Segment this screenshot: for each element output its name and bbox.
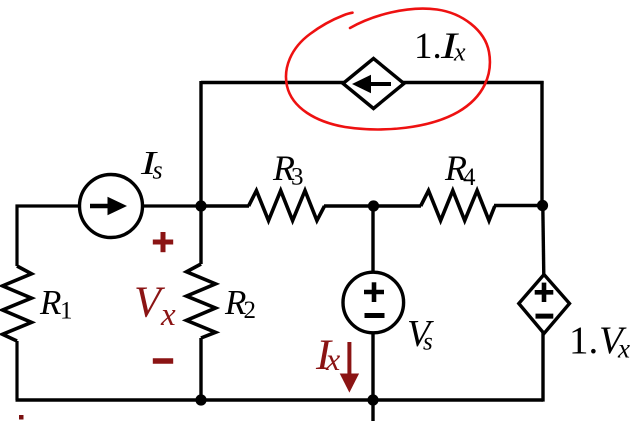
- svg-text:s: s: [423, 329, 433, 356]
- svg-text:1.: 1.: [569, 319, 598, 362]
- svg-text:1.: 1.: [414, 26, 442, 67]
- wire: Vs bottom lead (373,333)-(373,400): [371, 332, 374, 400]
- annotation: Vx minus sign: [153, 358, 173, 363]
- svg-text:s: s: [153, 156, 163, 185]
- wire: bottom rail (15,400)-(543,400): [16, 398, 544, 401]
- node D (201,400): [195, 394, 206, 405]
- annotation: Ix current arrow: [347, 342, 351, 375]
- svg-text:x: x: [160, 297, 176, 333]
- wire: right rail lower (543,333)-(543,400): [541, 332, 544, 402]
- wire: middle horizontal left lead of R3 (201,206)-(248,206): [201, 204, 249, 207]
- wire: (143,206)-(201,206): [142, 204, 202, 207]
- wire: right rail to diamond top (542,205)-(543,275): [543, 205, 544, 276]
- wire: Vs top lead (373,206)-(373,273): [371, 206, 374, 274]
- svg-text:1: 1: [60, 298, 73, 325]
- svg-text:3: 3: [291, 164, 304, 191]
- wire: top-left horizontal, left of Is (15,206)-(79,206): [16, 204, 81, 207]
- dependent voltage source 1.Vx (diamond): [519, 275, 570, 334]
- stray maroon dot bottom-left: [19, 415, 24, 420]
- wire: R4 right lead (495,206)-(542,205): [494, 204, 543, 207]
- wire: top horizontal left of diamond (201,82)-(343,83): [201, 81, 344, 84]
- wire: R4 left lead (373,206)-(420,206): [373, 204, 421, 207]
- wire: right rail upper (542,83)-(542,205): [540, 81, 543, 206]
- svg-text:x: x: [617, 334, 630, 364]
- resistor R1: [3, 266, 32, 341]
- node B (373,206): [368, 200, 379, 211]
- current source Is: [80, 175, 143, 238]
- annotation: hand-drawn red ellipse around 1.Ix source: [286, 9, 490, 130]
- resistor R3: [249, 191, 325, 221]
- wire: top horizontal right of diamond (404,83)-(542,83): [403, 81, 544, 84]
- wire: bottom stub below node (373,400)-(373,421): [371, 400, 374, 421]
- wire: left rail bottom segment (17,341)-(17,400): [15, 341, 18, 400]
- node E (373,400): [367, 394, 378, 405]
- resistor R4: [421, 191, 495, 221]
- wire: R3 right lead (324,206)-(373,206): [324, 204, 374, 207]
- voltage source Vs: [343, 272, 404, 333]
- svg-text:4: 4: [463, 164, 476, 191]
- node C (542,205): [537, 200, 548, 211]
- wire: R2 top lead (201,206)-(201,264): [199, 206, 202, 264]
- dependent current source 1.Ix (diamond): [343, 59, 404, 109]
- svg-text:R: R: [39, 283, 61, 322]
- svg-text:x: x: [325, 341, 340, 377]
- wire: middle-left vertical rail (201,82)-(201,206): [199, 81, 202, 207]
- resistor R2: [187, 264, 216, 338]
- wire: left rail top segment (17,206)-(17,266): [15, 205, 18, 267]
- svg-text:x: x: [453, 38, 466, 67]
- svg-text:2: 2: [244, 297, 257, 324]
- annotation: Vx plus sign: [153, 240, 173, 245]
- node A (201,206): [195, 200, 206, 211]
- wire: R2 bottom lead (201,338)-(201,400): [199, 338, 202, 400]
